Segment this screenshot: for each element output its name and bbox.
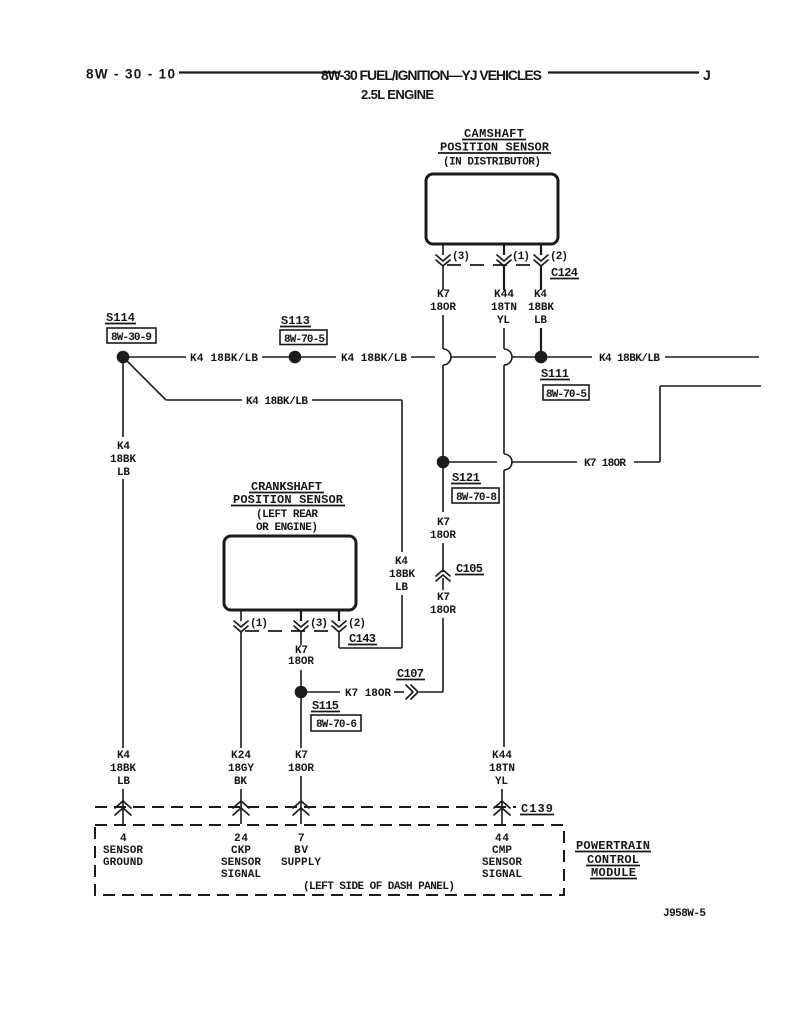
svg-text:(LEFT REAR: (LEFT REAR [256,509,318,521]
wire K4 18BK/LB branch horizontal y=400 [166,396,402,408]
wire K4 18BK/LB left vertical from S114 to PCM [110,363,136,824]
svg-text:YL: YL [495,776,508,788]
header rule left [179,71,339,73]
splice S121 [437,456,499,504]
wire K7 18OR from cam pin 3 [430,266,456,456]
wire K7 18OR from S115 to PCM [288,698,314,824]
connector C139 dashed line [95,802,554,816]
svg-text:8W-70-6: 8W-70-6 [316,719,357,731]
svg-text:8W-70-5: 8W-70-5 [284,334,325,346]
svg-text:18OR: 18OR [288,656,314,668]
svg-text:4: 4 [120,833,127,845]
svg-text:K7: K7 [295,750,308,762]
svg-text:(3): (3) [310,618,328,630]
svg-text:YL: YL [497,315,510,327]
svg-text:18OR: 18OR [430,605,456,617]
svg-text:18BK: 18BK [389,569,415,581]
svg-text:K7: K7 [437,592,450,604]
wire cam pin 3 stub [442,244,444,255]
svg-text:18BK: 18BK [110,454,136,466]
svg-text:K4: K4 [117,750,130,762]
header subtitle 2.5L ENGINE [361,87,434,102]
svg-text:GROUND: GROUND [103,857,143,869]
wire K7 18OR from crank pin 3 to S115 [288,632,314,686]
svg-text:8W-70-5: 8W-70-5 [546,389,587,401]
camshaft position sensor [426,127,558,244]
wire K7 18OR from S115 to C107 [307,688,404,700]
svg-text:K4 18BK/LB: K4 18BK/LB [246,396,308,408]
svg-text:(1): (1) [512,251,530,263]
header section letter J [703,67,711,83]
wire K7 18OR from C105 down to C107 line [419,578,456,692]
connector C105 [436,562,484,581]
powertrain control module box [95,825,564,895]
svg-text:K4 18BK/LB: K4 18BK/LB [341,353,407,365]
svg-text:K44: K44 [492,750,512,762]
svg-text:K4 18BK/LB: K4 18BK/LB [190,353,258,365]
svg-text:8W - 30 - 10: 8W - 30 - 10 [86,67,175,82]
svg-text:J: J [703,67,711,83]
connector C124 [436,251,579,280]
svg-text:8W-30 FUEL/IGNITION—YJ VEHICLE: 8W-30 FUEL/IGNITION—YJ VEHICLES [321,67,542,83]
svg-text:18OR: 18OR [430,302,456,314]
svg-text:18OR: 18OR [288,763,314,775]
svg-text:BK: BK [234,776,247,788]
wire K24 18GY/BK from crank pin 1 to PCM [228,632,254,824]
connector C143 [234,618,377,646]
wire crank pin 2 stub [338,610,340,621]
svg-text:(1): (1) [250,618,268,630]
svg-text:8W-30-9: 8W-30-9 [111,332,152,344]
wire K4 18BK/LB main horizontal run [129,353,759,365]
svg-text:18BK: 18BK [110,763,136,775]
svg-text:18OR: 18OR [430,530,456,542]
svg-text:K7 18OR: K7 18OR [345,688,391,700]
svg-text:BV: BV [294,845,308,857]
svg-text:K4 18BK/LB: K4 18BK/LB [599,353,660,365]
svg-text:SIGNAL: SIGNAL [482,869,522,881]
PCM pin 44 cmp sensor signal [482,833,522,881]
splice S113 [280,314,327,363]
wire crank pin 3 stub [300,610,302,621]
svg-text:(3): (3) [452,251,470,263]
PCM pin 4 sensor ground [103,833,143,869]
splice S114 [105,311,156,363]
splice S115 [295,686,361,731]
PCM pin 24 ckp sensor signal [221,833,261,881]
svg-text:(LEFT SIDE OF DASH PANEL): (LEFT SIDE OF DASH PANEL) [303,881,455,893]
svg-text:CMP: CMP [492,845,512,857]
wire K44 18TN/YL from cam pin 1 [489,266,517,824]
svg-text:LB: LB [117,776,130,788]
connector C107 [396,667,425,699]
svg-text:24: 24 [234,833,248,845]
svg-text:K4: K4 [117,441,130,453]
svg-text:K4: K4 [534,289,547,301]
wire K7 18OR below S121 with connector C105 [430,468,456,572]
header title [321,67,542,83]
svg-text:OR ENGINE): OR ENGINE) [256,522,318,534]
svg-text:K4: K4 [395,556,408,568]
wire cam pin 1 stub [503,244,505,255]
svg-text:(2): (2) [348,618,366,630]
connector C139 chevron pin 7 [293,801,309,815]
splice S111 [535,351,589,401]
svg-text:(IN DISTRIBUTOR): (IN DISTRIBUTOR) [443,157,541,169]
svg-text:SUPPLY: SUPPLY [281,857,321,869]
wire K4 18BK/LB from cam pin 2 [528,266,554,352]
powertrain control module label [575,839,651,880]
connector C139 chevron pin 44 [494,801,510,815]
svg-text:8W-70-8: 8W-70-8 [456,492,497,504]
svg-text:2.5L ENGINE: 2.5L ENGINE [361,87,434,102]
connector C139 chevron pin 4 [115,801,131,815]
svg-text:K44: K44 [494,289,514,301]
svg-text:K7: K7 [437,289,450,301]
svg-text:SIGNAL: SIGNAL [221,869,261,881]
header rule right [548,71,699,73]
wire K4 18BK/LB branch vertical to crank pin 2 [339,400,415,648]
svg-text:7: 7 [298,833,305,845]
wire cam pin 2 stub [540,244,542,255]
svg-text:LB: LB [117,467,130,479]
svg-text:K7 18OR: K7 18OR [584,458,626,470]
svg-text:18GY: 18GY [228,763,254,775]
svg-text:J958W-5: J958W-5 [663,908,706,920]
svg-text:CKP: CKP [231,845,251,857]
wire K4 18BK/LB branch diagonal from S114 [127,361,166,400]
crankshaft position sensor [224,480,356,610]
svg-text:K24: K24 [231,750,251,762]
svg-text:18BK: 18BK [528,302,554,314]
svg-text:(2): (2) [550,251,568,263]
wire K7 18OR from S121 to right edge [449,386,761,470]
svg-text:44: 44 [495,833,509,845]
svg-text:SENSOR: SENSOR [221,857,261,869]
svg-text:18TN: 18TN [491,302,517,314]
wire crank pin 1 stub [240,610,242,621]
header page number 8W-30-10 [86,67,175,82]
svg-text:K7: K7 [437,517,450,529]
PCM pin 7 BV supply [281,833,321,869]
connector C139 chevron pin 24 [233,801,249,815]
svg-text:SENSOR: SENSOR [482,857,522,869]
svg-text:LB: LB [395,582,408,594]
svg-text:18TN: 18TN [489,763,515,775]
svg-text:LB: LB [534,315,547,327]
svg-text:SENSOR: SENSOR [103,845,143,857]
